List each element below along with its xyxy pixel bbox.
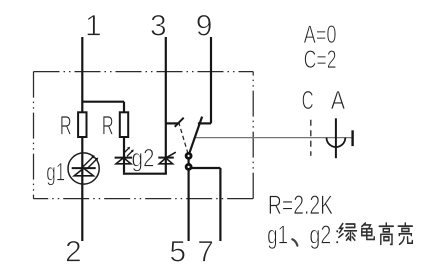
svg-text:g2: g2 xyxy=(309,220,331,250)
svg-text:R: R xyxy=(102,111,114,141)
svg-text:g1: g1 xyxy=(267,220,288,250)
svg-text:A: A xyxy=(331,85,346,115)
svg-text:5: 5 xyxy=(169,236,186,269)
svg-text:C: C xyxy=(302,85,314,115)
svg-text::: : xyxy=(334,220,341,250)
svg-text:R=2.2K: R=2.2K xyxy=(268,190,333,220)
svg-text:g2: g2 xyxy=(132,144,155,172)
svg-text:C=2: C=2 xyxy=(304,46,337,74)
svg-text:2: 2 xyxy=(65,236,82,269)
svg-text:9: 9 xyxy=(196,10,213,43)
svg-text:g1: g1 xyxy=(46,158,65,186)
svg-text:7: 7 xyxy=(197,236,214,269)
svg-text:3: 3 xyxy=(150,10,167,43)
svg-text:R: R xyxy=(60,111,72,141)
svg-text:A=0: A=0 xyxy=(304,21,337,49)
svg-text:1: 1 xyxy=(85,10,102,43)
